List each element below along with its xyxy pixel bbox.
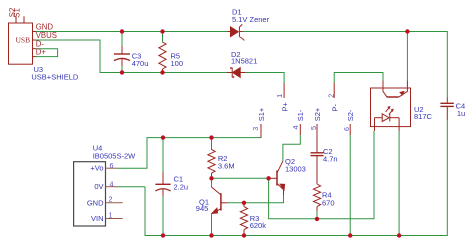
svg-text:S2-: S2-: [346, 109, 355, 121]
svg-text:5: 5: [309, 126, 318, 130]
svg-text:817C: 817C: [414, 112, 433, 121]
svg-text:USB: USB: [16, 36, 31, 45]
svg-text:6: 6: [110, 161, 114, 170]
svg-text:1u: 1u: [457, 109, 465, 118]
svg-text:4: 4: [110, 179, 114, 188]
svg-text:1: 1: [275, 94, 284, 98]
svg-text:620k: 620k: [250, 221, 267, 230]
svg-text:4.7n: 4.7n: [323, 155, 338, 164]
svg-text:USB+SHIELD: USB+SHIELD: [31, 72, 78, 81]
svg-text:3.6M: 3.6M: [218, 162, 235, 171]
svg-text:470u: 470u: [132, 59, 149, 68]
svg-text:945: 945: [196, 204, 209, 213]
svg-text:P+: P+: [280, 101, 289, 111]
svg-text:1N5821: 1N5821: [231, 57, 257, 66]
svg-text:VIN: VIN: [91, 214, 104, 223]
svg-text:13003: 13003: [285, 164, 306, 173]
svg-text:0V: 0V: [94, 182, 103, 191]
svg-text:100: 100: [171, 59, 184, 68]
svg-text:D+: D+: [36, 47, 47, 56]
svg-text:S2+: S2+: [313, 107, 322, 121]
svg-text:S1+: S1+: [257, 107, 266, 121]
svg-text:+Vo: +Vo: [90, 164, 103, 173]
svg-text:S1-: S1-: [296, 109, 305, 121]
svg-text:5.1V Zener: 5.1V Zener: [232, 15, 270, 24]
svg-text:4: 4: [291, 126, 300, 130]
svg-text:1: 1: [109, 210, 113, 219]
svg-text:6: 6: [342, 127, 351, 131]
svg-text:P-: P-: [331, 103, 340, 111]
svg-text:2: 2: [326, 94, 335, 98]
svg-text:IB0505S-2W: IB0505S-2W: [93, 152, 136, 161]
svg-text:2.2u: 2.2u: [174, 182, 189, 191]
svg-text:2: 2: [109, 194, 113, 203]
svg-text:S1: S1: [12, 8, 21, 18]
svg-text:670: 670: [322, 198, 335, 207]
svg-text:3: 3: [251, 127, 260, 131]
svg-text:GND: GND: [87, 198, 104, 207]
